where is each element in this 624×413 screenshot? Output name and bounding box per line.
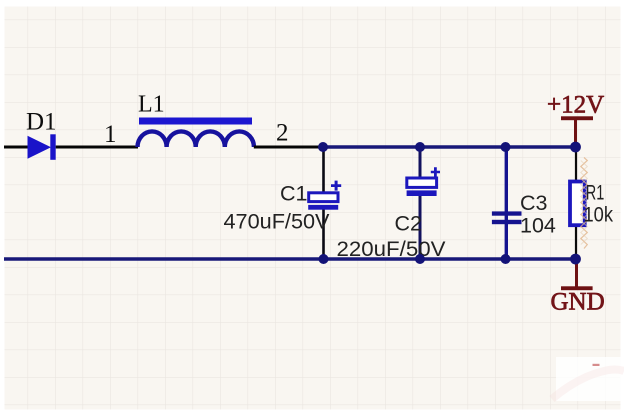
wire: input to D1 anode [4, 146, 29, 149]
svg-text:220uF/50V: 220uF/50V [337, 237, 447, 261]
svg-text:2: 2 [276, 120, 289, 147]
ground GND [561, 259, 593, 290]
junction: node top C3 [501, 142, 511, 152]
resistor R1 [570, 147, 587, 259]
junction: node bottom C2 [415, 254, 425, 264]
svg-text:+12V: +12V [547, 92, 604, 119]
capacitor C3 [492, 147, 522, 259]
svg-text:D1: D1 [26, 109, 57, 136]
svg-text:L1: L1 [138, 92, 165, 118]
junction: node top R1 / +12V [570, 142, 581, 153]
bottom bus wire [4, 257, 576, 261]
capacitor C1 [308, 147, 341, 259]
svg-text:470uF/50V: 470uF/50V [224, 210, 331, 234]
svg-text:GND: GND [551, 289, 605, 316]
inductor L1 [138, 118, 254, 148]
svg-text:R1: R1 [586, 181, 605, 205]
wire: L1 pin 2 to node [254, 146, 323, 149]
junction: node bottom C1 [319, 254, 329, 264]
junction: node bottom R1 / GND [570, 254, 581, 265]
svg-text:C3: C3 [520, 191, 548, 215]
svg-text:104: 104 [520, 214, 556, 238]
junction: node bottom C3 [501, 254, 511, 264]
svg-text:10k: 10k [584, 202, 614, 226]
svg-text:C2: C2 [395, 212, 422, 236]
junction: node top C1 [318, 142, 328, 152]
wire: D1 cathode to L1 pin 1 [56, 146, 138, 149]
svg-text:1: 1 [104, 121, 117, 148]
top bus wire [323, 145, 576, 149]
power +12V [561, 116, 593, 147]
watermark bottom-right [552, 357, 624, 401]
capacitor C2 [407, 147, 440, 259]
diode D1 [28, 134, 56, 160]
svg-text:C1: C1 [280, 182, 307, 206]
junction: node top C2 [415, 142, 425, 152]
